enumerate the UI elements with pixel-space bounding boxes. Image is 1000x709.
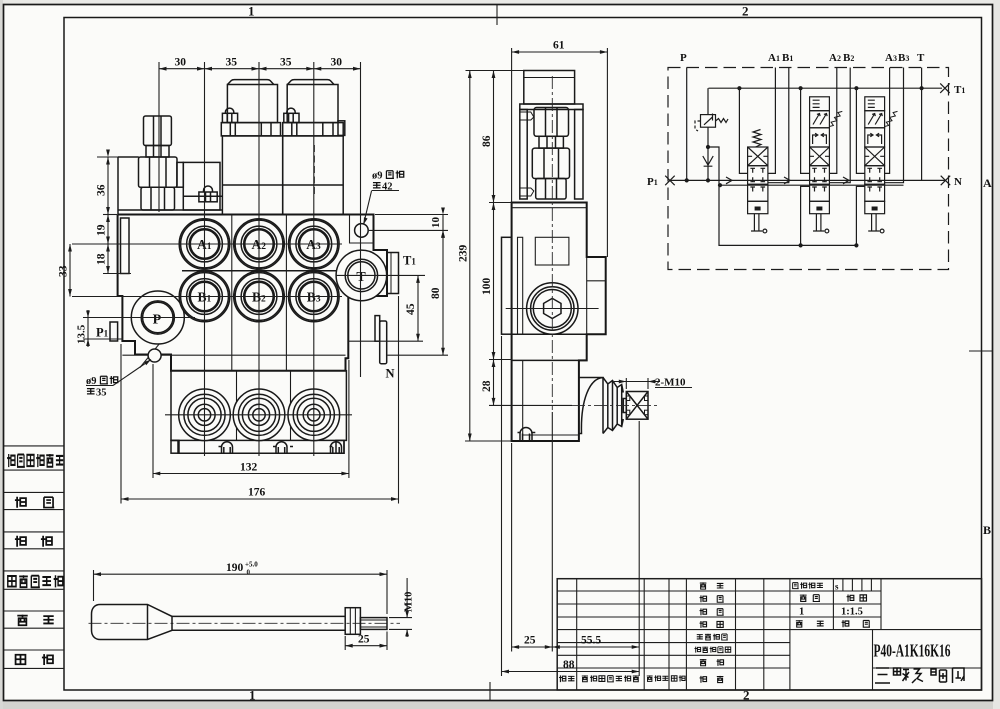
left margin column boxes	[4, 446, 64, 669]
side clamp plate left	[520, 110, 534, 200]
svg-text:1:1.5: 1:1.5	[841, 607, 863, 618]
bottom cap 1	[179, 389, 231, 441]
relief valve body	[701, 115, 716, 128]
wire T wrap spool1	[739, 88, 747, 173]
side clamp plate right	[575, 110, 583, 200]
port boss A2	[234, 219, 285, 270]
port boss A1	[179, 219, 230, 270]
wire P1 bus	[670, 179, 945, 181]
centerline P row	[83, 317, 195, 319]
svg-text:ø9: ø9	[372, 171, 383, 182]
wire B3 drop	[885, 68, 904, 183]
wire T wrap spool3	[856, 88, 864, 173]
svg-text:80: 80	[430, 287, 442, 299]
svg-text:88: 88	[563, 659, 575, 671]
svg-text:176: 176	[248, 487, 266, 499]
svg-text:A3: A3	[885, 52, 897, 64]
bottom cap 3	[288, 389, 340, 441]
dim 45	[417, 275, 419, 341]
dim 132	[153, 473, 349, 475]
三联多路阀	[875, 668, 964, 683]
spool3 hidden centerline	[313, 145, 315, 196]
dim 13.5	[87, 310, 89, 347]
lever joint block	[626, 392, 648, 420]
wire carry-over elbow	[708, 147, 856, 245]
T1 flange tab	[387, 253, 399, 294]
svg-text:100: 100	[481, 278, 493, 296]
wire T return line	[709, 87, 943, 89]
spool housing 2	[283, 80, 345, 215]
wire A3 drop	[885, 68, 890, 174]
svg-text:86: 86	[481, 135, 493, 147]
centerline caps row	[165, 414, 352, 416]
ext line top for 239/86	[466, 70, 525, 72]
inlet port circle side	[527, 283, 578, 334]
relief valve arrow	[704, 114, 713, 125]
housing2 bolt	[284, 108, 299, 123]
dim 2-M10	[625, 378, 627, 389]
centerline vertical col2	[258, 62, 260, 456]
svg-text:28: 28	[481, 380, 493, 392]
inlet bolt	[199, 186, 217, 202]
port rings T	[345, 259, 377, 291]
port rings A1	[181, 220, 229, 268]
svg-text:M10: M10	[404, 592, 415, 612]
wire A1 drop	[768, 68, 776, 174]
svg-text:1: 1	[248, 4, 255, 19]
centerline T row	[336, 274, 425, 276]
port boss B3	[289, 271, 340, 322]
svg-text:+5.0: +5.0	[245, 561, 258, 569]
svg-text:30: 30	[175, 57, 187, 69]
日期	[671, 676, 677, 681]
dim 61	[512, 51, 608, 53]
port boss P	[131, 291, 184, 344]
port rings A3	[290, 220, 338, 268]
centerline hole/T column	[360, 62, 362, 377]
svg-text:35: 35	[280, 57, 292, 69]
callout hole top right	[364, 170, 404, 224]
grip joint line	[147, 605, 149, 640]
svg-text:P: P	[680, 52, 687, 64]
junction dots carry line	[799, 243, 803, 247]
P1 boss side	[502, 237, 512, 334]
port rings B3	[290, 273, 338, 321]
svg-text:239: 239	[457, 245, 469, 263]
更改人	[647, 675, 653, 681]
svg-text:18: 18	[96, 253, 108, 265]
port boss A3	[289, 219, 340, 270]
side cap	[520, 71, 583, 110]
plugged port X at N	[941, 176, 951, 186]
zone tick top	[496, 5, 498, 26]
bottom cap 2	[233, 389, 285, 441]
drilled hole bottom left	[148, 349, 161, 362]
svg-text:T: T	[356, 270, 366, 285]
lever pivot centerline	[572, 404, 660, 406]
zone tick bottom	[489, 682, 491, 701]
svg-text:T1: T1	[954, 84, 965, 96]
svg-text:13.5: 13.5	[76, 324, 88, 344]
svg-text:P40-A1K16K16: P40-A1K16K16	[874, 641, 951, 661]
lower spool-cap block	[171, 371, 346, 441]
svg-text:42: 42	[382, 182, 393, 193]
junction dots bus	[685, 178, 689, 182]
dim 239	[469, 71, 471, 442]
svg-text:P: P	[153, 312, 162, 327]
svg-text:A2: A2	[829, 52, 841, 64]
side step back edge	[586, 257, 588, 334]
handle grip	[92, 605, 173, 640]
corner chamfer diagonal	[140, 339, 163, 367]
port boss B2	[234, 271, 285, 322]
junction dot	[706, 145, 710, 149]
svg-text:A: A	[983, 176, 992, 190]
批准	[700, 676, 707, 683]
wire lower parallel line	[720, 184, 904, 186]
dim 55.5	[552, 646, 639, 648]
svg-text:ø9: ø9	[86, 376, 97, 387]
审核	[700, 659, 707, 666]
svg-text:T: T	[917, 52, 925, 64]
svg-text:B2: B2	[843, 52, 854, 64]
标记	[559, 675, 566, 682]
recessed strip	[518, 237, 523, 334]
制图	[700, 595, 707, 602]
校对	[700, 621, 707, 628]
svg-text:B3: B3	[898, 52, 909, 64]
handle thread end	[360, 618, 387, 630]
设计	[700, 582, 707, 589]
svg-text:T1: T1	[403, 254, 416, 268]
标准化检查	[695, 647, 701, 653]
label 借通用件登记	[7, 454, 63, 467]
zone tick right	[969, 350, 993, 352]
side centerline vertical	[551, 76, 553, 410]
relief valve hex stack	[139, 116, 178, 210]
base bolt 1	[219, 442, 333, 453]
spool valve V2	[810, 97, 843, 233]
svg-text:2-M10: 2-M10	[655, 377, 686, 389]
base bolt 2	[273, 442, 293, 453]
mounting base strip	[171, 440, 344, 453]
check valve	[703, 156, 713, 166]
boss tangent line between rows	[182, 270, 341, 272]
svg-text:36: 36	[96, 184, 108, 196]
dim 100	[493, 203, 495, 360]
dim 25 handle	[345, 645, 387, 647]
label 旧底图总号	[8, 576, 16, 587]
handle centerline	[89, 622, 401, 624]
svg-text:0: 0	[247, 569, 251, 577]
label 签字	[17, 615, 27, 626]
svg-text:30: 30	[331, 57, 343, 69]
port boss B1	[179, 271, 230, 322]
lower housing inner lines	[523, 360, 579, 441]
side body top second line	[512, 207, 587, 209]
第 张	[842, 620, 849, 627]
lever shaft stub	[623, 399, 626, 413]
callout hole bottom left	[86, 360, 151, 399]
spool valve V1	[748, 130, 768, 233]
svg-text:190: 190	[226, 562, 244, 574]
body internal step line	[122, 354, 345, 356]
hole pocket corner	[350, 215, 374, 244]
body section divider 1	[231, 215, 233, 371]
port rings P	[141, 301, 174, 334]
wire B2 drop	[829, 68, 850, 183]
side centerline horizontal	[506, 308, 599, 310]
svg-text:N: N	[386, 367, 395, 381]
svg-text:1: 1	[249, 688, 256, 703]
bellows pleats	[603, 378, 623, 434]
centerline relief valve	[158, 62, 160, 212]
svg-text:2: 2	[742, 4, 749, 19]
relief pilot dashed	[695, 121, 701, 131]
right section lines	[790, 590, 881, 592]
svg-text:25: 25	[524, 635, 536, 647]
centerline B row	[72, 296, 342, 298]
wire T label drop to bus	[921, 68, 923, 181]
housing1 bolt	[222, 108, 237, 123]
更改内容或依据	[582, 675, 588, 681]
side body outline	[512, 203, 606, 442]
描图	[700, 608, 707, 615]
inlet section top plate	[118, 157, 222, 274]
relief valve drop from T line	[707, 88, 709, 114]
dim 176	[121, 498, 399, 500]
wire P supply vertical	[686, 68, 688, 181]
plugged port X at T1	[940, 83, 950, 93]
N port boss	[375, 316, 380, 342]
svg-text:19: 19	[96, 224, 108, 236]
svg-text:B: B	[983, 523, 991, 537]
handle nut	[345, 608, 360, 635]
dim 28	[493, 360, 495, 406]
svg-text:B1: B1	[782, 52, 793, 64]
port boss T	[336, 250, 387, 301]
svg-text:P1: P1	[96, 326, 109, 340]
比例	[847, 594, 854, 601]
svg-text:10: 10	[430, 217, 442, 229]
label 描图	[15, 497, 26, 508]
svg-text:132: 132	[240, 462, 258, 474]
drilled hole top right	[355, 224, 369, 238]
dim 10	[442, 215, 444, 231]
共 张	[796, 620, 803, 627]
wire relief to bus	[707, 127, 709, 180]
left dim chain 36/19/18	[107, 157, 109, 274]
base bolt side	[518, 428, 536, 442]
plugged port X at P1	[665, 176, 675, 186]
svg-text:55.5: 55.5	[581, 635, 601, 647]
port rings A2	[235, 220, 283, 268]
svg-text:P1: P1	[647, 176, 658, 188]
main body outline	[118, 215, 387, 371]
wire A2 drop	[829, 68, 836, 174]
spool valve V3	[865, 97, 898, 233]
handle shaft	[172, 616, 345, 630]
lever bellows dome	[579, 378, 603, 434]
数量	[800, 594, 807, 601]
dim 33	[69, 244, 71, 297]
工艺检查	[697, 635, 703, 639]
wire riser to spool3	[856, 186, 864, 245]
port rings B1	[181, 273, 229, 321]
port rings B2	[235, 273, 283, 321]
dim 190	[94, 573, 388, 575]
svg-text:s: s	[835, 582, 839, 592]
svg-text:1: 1	[799, 607, 804, 618]
side step inner line	[587, 280, 606, 282]
svg-text:61: 61	[553, 40, 565, 52]
centerline vertical col3	[313, 62, 315, 456]
inner panel	[535, 237, 569, 265]
dim 86	[493, 71, 495, 203]
svg-text:35: 35	[226, 57, 238, 69]
dim 88	[502, 671, 640, 673]
svg-text:35: 35	[96, 388, 107, 399]
svg-text:33: 33	[58, 265, 70, 277]
label 校描	[15, 536, 26, 547]
label 日期	[16, 655, 26, 664]
dim 25 side	[512, 646, 553, 648]
wire T wrap spool2	[801, 88, 810, 173]
wire riser to spool2	[801, 186, 810, 245]
图样标记	[792, 583, 798, 589]
junction dots on T line	[737, 86, 923, 90]
side body mid line	[512, 333, 587, 335]
side body line 360	[512, 359, 587, 361]
centerline A row	[72, 243, 342, 245]
title block	[557, 579, 981, 690]
svg-text:25: 25	[358, 634, 370, 646]
flow arrows on bus	[726, 177, 849, 184]
schematic dashed boundary	[668, 68, 949, 270]
svg-text:A1: A1	[768, 52, 780, 64]
side relief hex stack	[532, 108, 569, 200]
wire B1 drop	[768, 68, 789, 183]
dim M10	[389, 617, 412, 619]
svg-text:45: 45	[405, 303, 417, 315]
spool housing 1	[221, 80, 282, 215]
body section divider 2	[285, 215, 287, 371]
dim line top 30/35/35/30	[159, 68, 361, 70]
base bolt 3	[331, 442, 342, 453]
socket hex plug	[544, 298, 561, 318]
svg-text:N: N	[954, 176, 962, 188]
centerline vertical col1	[204, 62, 206, 456]
P1 port tab	[110, 322, 118, 341]
dim 80	[442, 230, 444, 355]
relief valve spring	[716, 119, 729, 123]
